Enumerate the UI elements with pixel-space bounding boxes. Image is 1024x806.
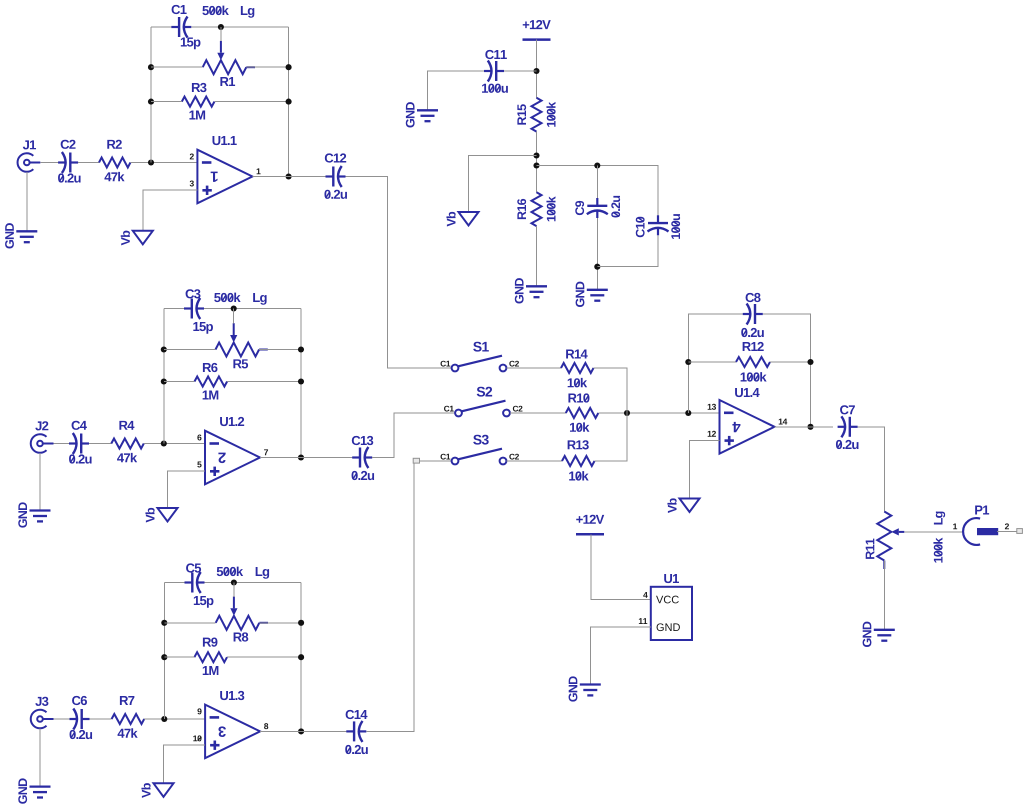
node stub P1 output [1017,529,1023,534]
node summing junction 2 [685,410,691,416]
wire P1 pin2 [997,530,1017,532]
ground C9 [576,282,608,307]
op-amp U1.4 [708,388,788,454]
node bypass tap [533,162,539,168]
wire R15 to junction [536,132,538,193]
resistor R16 100k [517,192,555,226]
wire pot row ch1 [151,66,203,68]
ground U1 [569,676,601,701]
node C9/C10 bottom junction [594,264,600,270]
node junction [161,378,167,384]
wire R14 to summing vertical [594,368,628,413]
power +12V U1 [576,515,604,535]
wire C11 to ground [428,71,487,110]
wire J1 to C2 [40,162,58,164]
resistor R3 1M [182,83,215,120]
wire C11 to +12V [504,70,537,72]
wire U1.2 output [260,457,353,459]
wire wiper R1 [220,27,222,41]
wire U1.1 pin3 to Vb [143,190,198,231]
capacitor C13 0.2u [352,436,375,480]
wire R10 to U1.4 pin13 [598,412,719,414]
switch S3 [441,435,519,465]
capacitor C2 0.2u [58,140,81,183]
node junction [298,620,304,626]
resistor R15 100k [517,98,555,132]
resistor R12 100k [736,342,770,382]
capacitor C11 100u [482,50,508,93]
power Vb bias [446,212,478,227]
connector P1 [953,506,1009,545]
wire top row ch1 [151,26,171,28]
wire R7 to U1.3 pin9 [144,718,205,720]
wire summing to C8 row [688,314,746,413]
wire C7 to R11 [858,427,885,512]
capacitor C5 15p [185,563,214,607]
wire feedback left vertical ch3 [163,583,165,720]
node junction [298,454,304,460]
wire wiper R8 [233,583,235,597]
node junction input ch2 [161,440,167,446]
potentiometer R5 500k Lg [214,293,268,369]
capacitor C3 15p [184,289,213,333]
wire feedback right vertical ch2 [300,309,302,458]
power Vb ch2 [145,508,177,523]
capacitor C7 0.2u [836,405,859,449]
wire R2 to U1.1 pin2 [130,162,197,164]
node C11 junction [533,68,539,74]
wire pot row ch2 [164,349,216,351]
power Vb U1.4 [667,498,699,513]
node junction input ch3 [161,716,167,722]
connector J2 [31,421,54,453]
op-amp U1.2 [197,417,268,484]
wire feedback left vertical ch2 [163,309,165,444]
wire R11 to ground [883,561,885,630]
wire U1.3 pin10 to Vb [164,745,206,783]
node junction [286,173,292,179]
wire U1.3 output [260,730,347,732]
potentiometer R11 100k Lg [866,512,945,570]
wire C8 to right vertical [763,314,811,427]
wire J1 to ground [26,172,28,232]
wire R12 row [688,361,736,363]
IC U1 power block [639,574,692,640]
wire R16 to ground [536,226,538,286]
wire C6 to R7 [90,718,112,720]
capacitor C9 0.2u [575,196,620,218]
node junction [685,359,691,365]
resistor R2 47k [99,140,130,182]
ground J3 [18,778,50,803]
wire C13 to S2 [372,413,455,458]
node summing junction 1 [624,410,630,416]
capacitor C6 0.2u [70,696,93,739]
node junction [161,620,167,626]
ground J2 [18,502,50,527]
wire U1.1 output [252,176,326,178]
wire R13 to summing vertical [595,368,628,461]
wire U1.4 pin12 to Vb [690,440,720,498]
wire R3 row ch1 [151,101,182,103]
wire J2 to ground [39,453,41,511]
node junction [286,99,292,105]
ground R11 [863,622,895,647]
wire R9 row ch3 [164,656,194,658]
capacitor C12 0.2u [324,153,347,199]
wire R11 wiper to P1 [904,531,962,533]
node junction [807,424,813,430]
node junction [807,359,813,365]
wire feedback left vertical ch1 [150,27,152,163]
node junction [148,64,154,70]
node junction [286,64,292,70]
potentiometer R1 500k Lg [202,6,255,86]
resistor R10 10k [566,393,599,432]
resistor R9 1M [194,638,227,675]
capacitor C8 0.2u [741,293,764,337]
resistor R14 10k [561,350,594,388]
wire S1 to R14 [506,367,561,369]
wire U1.4 output [775,426,834,428]
capacitor C4 0.2u [69,421,92,464]
wire C9 top [596,166,598,202]
wire C12 to S1 [346,177,452,369]
ground C11 [406,102,438,127]
wire feedback right vertical ch3 [300,583,302,732]
wire wiper R5 [233,309,235,324]
node C9 top [594,162,600,168]
resistor R4 47k [111,421,144,462]
resistor R7 47k [112,696,145,738]
resistor R13 10k [562,440,595,480]
node junction input ch1 [148,159,154,165]
ground R16 [515,278,547,303]
wire Vb tap [469,156,537,213]
wire J3 to C6 [54,718,70,720]
node Vb tap [533,152,539,158]
wire J2 to C4 [54,443,70,445]
op-amp U1.1 [190,136,261,203]
connector J1 [18,140,41,171]
node stub S3 input [413,458,419,463]
switch S1 [441,342,519,372]
switch S2 [444,387,522,417]
resistor R6 1M [195,363,228,400]
wire C2 to R2 [78,162,99,164]
power Vb ch3 [141,783,173,798]
wire feedback right vertical ch1 [288,27,290,177]
node junction [161,654,167,660]
node junction [298,728,304,734]
wire C10 bottom [597,235,658,266]
wire C9 bottom [596,218,598,290]
wire R4 to U1.2 pin6 [144,443,205,445]
wire pot row ch3 [164,622,215,624]
potentiometer R8 500k Lg [216,567,269,642]
wire +12V to U1 pin4 [591,534,651,599]
node junction [298,654,304,660]
node wiper R8 [231,579,237,585]
node wiper R5 [231,305,237,311]
node junction [298,346,304,352]
node junction [161,346,167,352]
wire C4 to R4 [89,443,111,445]
wire top row ch2 [164,308,184,310]
power Vb ch1 [121,231,153,246]
connector J3 [31,697,54,729]
wire U1 pin11 to ground [590,627,651,685]
wire bypass row [537,166,659,219]
node junction [148,99,154,105]
node wiper R1 [218,24,224,30]
power +12V rail [523,20,551,40]
op-amp U1.3 [193,691,268,758]
wire +12V down [536,40,538,98]
wire top row ch3 [164,582,184,584]
wire S3 to R13 [506,460,562,462]
wire U1.2 pin5 to Vb [168,471,206,508]
capacitor C1 15p [171,5,200,49]
node junction [298,378,304,384]
capacitor C10 100u [636,214,680,239]
wire J3 to ground [39,728,41,786]
wire stub to S3 [420,460,452,462]
wire C14 to S3 [366,463,414,731]
wire R6 row ch2 [164,381,195,383]
capacitor C14 0.2u [345,710,368,754]
ground J1 [5,223,37,248]
wire S2 to R10 [510,412,566,414]
